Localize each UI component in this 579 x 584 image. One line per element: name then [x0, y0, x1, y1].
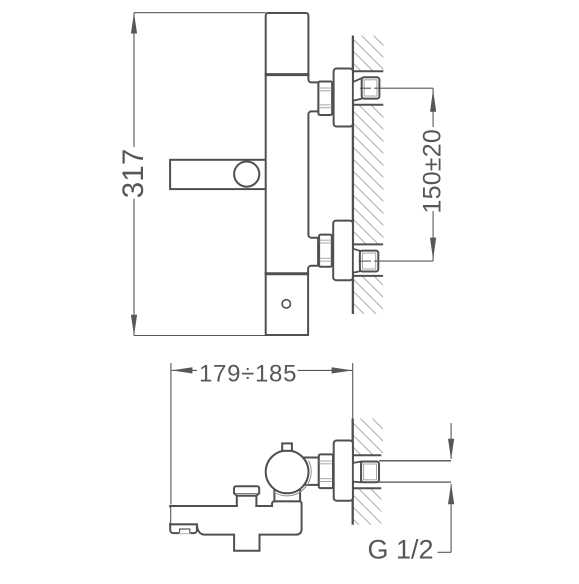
spout window — [179, 528, 190, 534]
small knob on top — [282, 443, 292, 450]
top union: centre dash — [360, 87, 371, 89]
left extension line — [170, 363, 172, 505]
svg-text:150±20: 150±20 — [419, 129, 447, 213]
wall line (side view) — [352, 419, 354, 525]
top union: cone through wall — [353, 78, 362, 101]
supply pipe — [379, 460, 451, 462]
hole lines (side view) — [353, 454, 382, 456]
bottom union: wall flange — [333, 221, 353, 281]
bottom union: mixer nut — [319, 235, 332, 267]
dimension 150±20 — [432, 88, 434, 127]
wall line (front view) — [352, 36, 354, 315]
top union: extension to dim — [374, 87, 433, 89]
pipe hole lines bottom union — [353, 243, 383, 245]
side wall nut — [361, 462, 379, 483]
mixer body (front view) — [266, 13, 319, 335]
svg-text:317: 317 — [117, 148, 150, 198]
wall hatching (front view) — [340, 2, 400, 374]
thick separator under cartridge box — [265, 73, 310, 76]
top union: wall-side nut — [362, 77, 380, 98]
connector knob to wall — [302, 458, 319, 485]
body bar (side view) — [170, 501, 301, 534]
knob skirt thin arc — [273, 461, 311, 496]
bottom union: cone through wall — [353, 249, 360, 273]
dimension 179÷185 line — [172, 369, 197, 371]
dimension 317 : dimension line — [133, 13, 135, 147]
handle lever — [170, 160, 269, 189]
svg-text:G 1/2: G 1/2 — [368, 535, 434, 565]
side cone through wall — [353, 462, 361, 483]
arrow left — [172, 367, 193, 373]
thermostat knob circle — [266, 451, 309, 494]
arrow right — [332, 367, 353, 373]
G 1/2 dimension — [450, 423, 452, 459]
diverter stem sides — [237, 496, 257, 507]
diverter erase — [238, 503, 255, 509]
bottom union: extension to dim — [374, 260, 433, 262]
side flange — [334, 441, 353, 501]
svg-text:179÷185: 179÷185 — [199, 361, 297, 388]
dimension 317 : bottom extension line — [134, 335, 266, 337]
side nut — [319, 454, 333, 488]
arrow up (150) — [430, 90, 436, 112]
dimension 317 : top extension line — [134, 12, 266, 14]
arrow down — [131, 315, 137, 336]
arrow down (150) — [430, 238, 436, 260]
thick separator above bottom box — [265, 272, 309, 275]
handle knob circle — [234, 162, 259, 187]
diverter taper fill — [234, 493, 259, 497]
pipe hole lines top union — [353, 70, 383, 72]
diverter cap — [234, 486, 259, 496]
bottom union: centre dash — [359, 260, 372, 262]
top union: wall flange — [334, 69, 353, 127]
bottom union: wall-side nut — [360, 251, 378, 272]
wall hatching (side view) — [340, 386, 400, 578]
spout box — [170, 524, 197, 533]
body left edge thinning — [169, 508, 172, 523]
neck between knob and body — [274, 472, 300, 502]
aerator fill — [234, 533, 259, 551]
right extension line (above wall) — [352, 363, 354, 419]
top union: mixer nut — [318, 82, 332, 116]
screw hole in bottom box — [282, 300, 290, 308]
arrow up — [131, 13, 137, 34]
aerator outline — [234, 534, 259, 551]
